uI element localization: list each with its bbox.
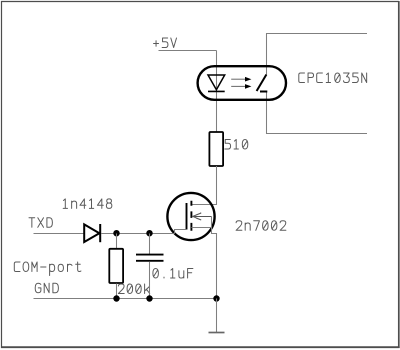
optocoupler U1 CPC1035N body bbox=[198, 66, 286, 100]
label TXD bbox=[29, 218, 52, 228]
wire +5V feed bbox=[159, 50, 217, 52]
wire switch bottom lead to external connector bottom rail bbox=[267, 92, 368, 134]
resistor R2 200k bbox=[109, 249, 123, 283]
diode D1 cathode bar bbox=[99, 224, 101, 242]
node junction dot GND/C1 bbox=[146, 295, 152, 301]
Q1 body diode arrow bbox=[193, 213, 212, 220]
capacitor C1 bottom plate bbox=[136, 260, 164, 262]
diode D1 1n4148 triangle bbox=[84, 224, 99, 242]
wire resistor R2 bottom to ground rail bbox=[116, 284, 118, 299]
wire main vertical: LED anode through optocoupler to resistor R1 bbox=[216, 51, 218, 133]
label CPC1035N bbox=[299, 73, 367, 83]
node junction dot GND/source bbox=[213, 295, 219, 301]
wire switch top lead to external connector top rail bbox=[267, 34, 368, 75]
light arrow 2 bbox=[231, 85, 246, 87]
light arrow 1 bbox=[231, 78, 246, 80]
label GND bbox=[35, 283, 58, 293]
resistor R1 510 bbox=[209, 132, 223, 166]
wire Q1 gate stub bbox=[175, 230, 187, 234]
wire capacitor C1 bottom plate to ground rail bbox=[149, 262, 151, 299]
wire ground rail to ground symbol bbox=[216, 299, 218, 333]
label COM-port bbox=[14, 262, 81, 276]
node junction dot GND/R2 bbox=[113, 295, 119, 301]
Q1 source stub bbox=[191, 227, 211, 229]
label +5V bbox=[154, 38, 177, 48]
label 510 bbox=[225, 140, 248, 150]
capacitor C1 top plate bbox=[136, 254, 164, 256]
label 1n4148 bbox=[63, 199, 112, 209]
Q1 channel dashes bbox=[190, 201, 192, 231]
label 2n7002 bbox=[236, 221, 286, 231]
wire resistor R1 to Q1 drain bbox=[191, 166, 216, 205]
wire Q1 source to ground rail bbox=[212, 217, 217, 299]
wire node to capacitor C1 top plate bbox=[149, 234, 151, 255]
switch S1 blade bbox=[257, 75, 267, 92]
wire GND rail bbox=[34, 298, 217, 300]
wire node to resistor R2 top bbox=[116, 234, 118, 250]
label 200k bbox=[118, 284, 149, 294]
ground bbox=[209, 332, 225, 334]
transistor Q1 2n7002 body circle bbox=[167, 193, 214, 240]
wire diode D1 cathode to Q1 gate bbox=[101, 233, 175, 235]
node junction dot TXD/C1 bbox=[146, 230, 152, 236]
label 0.1uF bbox=[153, 269, 193, 279]
node junction dot TXD/R2 bbox=[113, 230, 119, 236]
LED D2 triangle inside optocoupler bbox=[208, 75, 225, 90]
switch S1 contact bar bbox=[260, 91, 267, 93]
LED D2 cathode bar bbox=[208, 90, 225, 92]
Q1 gate electrode bbox=[186, 203, 188, 230]
wire TXD to diode D1 anode bbox=[34, 233, 85, 235]
